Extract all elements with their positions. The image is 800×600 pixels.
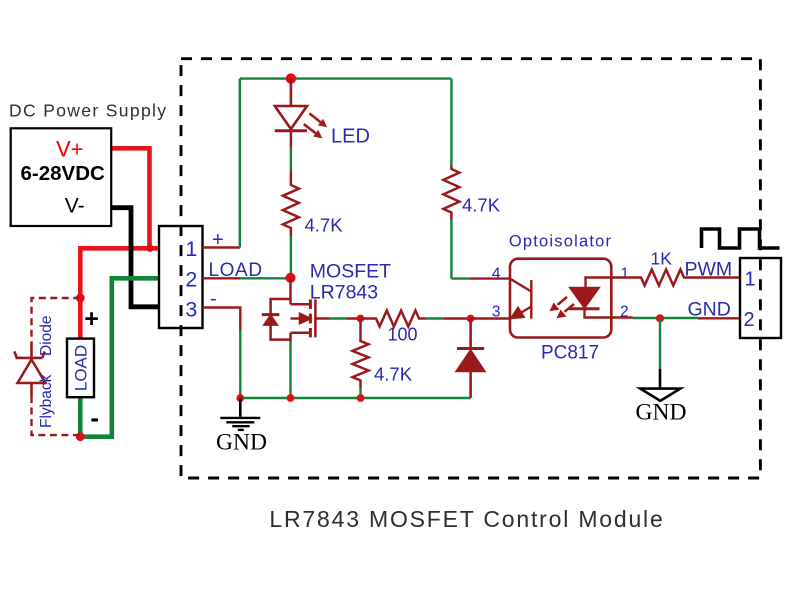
wire flyback dashed bottom-left — [32, 396, 81, 435]
resistor R4 4.7K right — [450, 79, 452, 165]
svg-text:LR7843 MOSFET Control Module: LR7843 MOSFET Control Module — [269, 506, 664, 532]
wire pin2 J1 to drain — [203, 277, 241, 279]
svg-text:4: 4 — [492, 266, 501, 283]
ground arrow symbol — [659, 369, 662, 389]
wire opto pin3 — [471, 317, 510, 319]
svg-text:2: 2 — [743, 309, 754, 331]
load box — [67, 339, 94, 398]
wire opto pin2 to gnd — [611, 316, 632, 318]
svg-text:1: 1 — [185, 237, 197, 261]
svg-text:MOSFET: MOSFET — [310, 261, 391, 283]
node rail gnd — [236, 394, 244, 402]
svg-text:GND: GND — [688, 298, 731, 320]
node clamp diode — [467, 315, 475, 323]
opto phototransistor — [510, 279, 531, 319]
svg-text:Diode: Diode — [38, 316, 55, 357]
node gate — [357, 315, 365, 323]
connector J2 — [740, 258, 781, 338]
DC power supply box — [11, 128, 112, 226]
node flyback top — [76, 294, 85, 303]
svg-text:LOAD: LOAD — [71, 345, 90, 391]
svg-text:3: 3 — [492, 303, 501, 320]
svg-text:1: 1 — [744, 269, 755, 291]
node junction V+ — [146, 245, 153, 252]
diode D1 clamp — [457, 319, 484, 399]
svg-text:4.7K: 4.7K — [462, 195, 501, 216]
mosfet Q1 LR7843 — [262, 278, 361, 342]
node flyback bottom — [76, 432, 85, 441]
wire V- thick black — [90, 208, 161, 307]
wire pin3 J1 to ground rail — [203, 308, 241, 331]
LED D3 — [275, 79, 327, 171]
svg-text:LR7843: LR7843 — [310, 282, 378, 304]
svg-text:2: 2 — [185, 268, 197, 292]
svg-text:3: 3 — [185, 298, 197, 322]
wire gnd drop — [659, 318, 661, 369]
diode D2 flyback — [14, 342, 45, 396]
svg-text:LED: LED — [331, 126, 370, 148]
svg-text:PC817: PC817 — [541, 343, 599, 364]
svg-text:Flyback: Flyback — [38, 374, 55, 428]
wire top green — [240, 77, 452, 79]
svg-text:V+: V+ — [56, 137, 84, 162]
wire LOAD thick green — [80, 278, 161, 436]
svg-text:4.7K: 4.7K — [374, 364, 413, 385]
svg-text:4.7K: 4.7K — [305, 215, 344, 236]
node gnd right — [656, 314, 664, 322]
svg-text:PWM: PWM — [685, 259, 733, 281]
svg-text:GND: GND — [216, 430, 267, 456]
opto LED — [569, 278, 611, 318]
resistor R2 100 — [361, 311, 427, 327]
svg-text:6-28VDC: 6-28VDC — [21, 162, 106, 185]
svg-text:Optoisolator: Optoisolator — [509, 233, 612, 251]
wire bottom rail green — [240, 397, 470, 400]
resistor R5 1K — [611, 270, 740, 286]
square wave icon — [702, 229, 780, 248]
node rail source — [287, 394, 295, 402]
svg-text:1K: 1K — [651, 249, 673, 269]
node rail r3 — [357, 394, 365, 402]
resistor R3 4.7K — [353, 319, 369, 389]
svg-text:100: 100 — [388, 325, 418, 345]
ground earth symbol — [220, 398, 260, 430]
node LED top — [286, 73, 296, 83]
wire flyback dashed top-left — [32, 298, 81, 342]
wire pin1 vertical green — [239, 79, 241, 248]
svg-text:-: - — [90, 403, 99, 433]
wire pin1 J1 — [203, 246, 240, 248]
resistor R1 4.7K — [283, 171, 299, 236]
svg-text:DC Power Supply: DC Power Supply — [9, 101, 167, 121]
module dashed border — [181, 59, 760, 478]
node drain — [285, 273, 295, 283]
optoisolator U1 box — [510, 259, 611, 338]
connector J1 — [159, 226, 203, 328]
opto light arrows — [550, 297, 575, 318]
svg-text:GND: GND — [636, 400, 687, 426]
wire V+ thick red — [80, 148, 161, 338]
svg-text:+: + — [84, 305, 99, 333]
svg-text:1: 1 — [621, 266, 630, 283]
wire opto pin4 — [451, 277, 470, 279]
svg-text:V-: V- — [65, 195, 85, 218]
